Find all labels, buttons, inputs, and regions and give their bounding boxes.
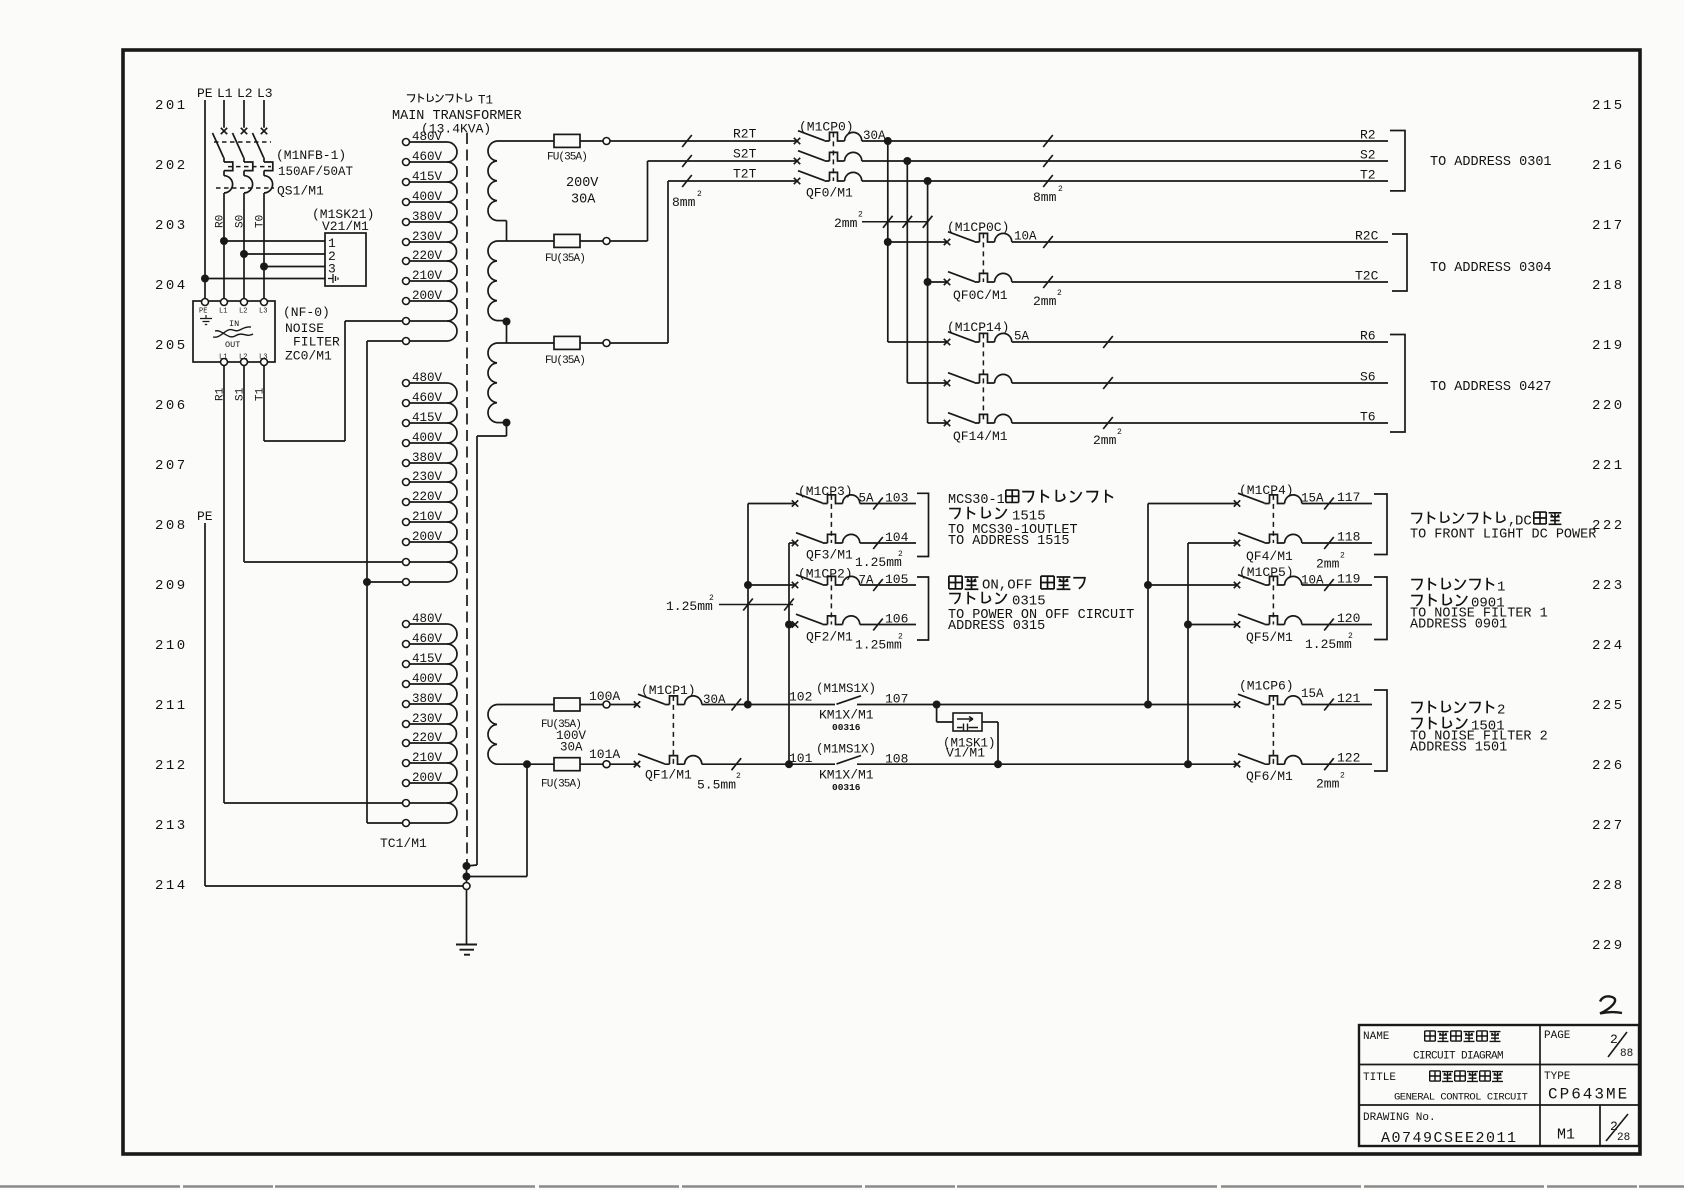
svg-text:224: 224 <box>1592 638 1625 654</box>
wire V21 pin2 <box>240 250 248 258</box>
svg-text:480V: 480V <box>412 371 443 385</box>
svg-text:201: 201 <box>155 98 188 114</box>
svg-text:2mm: 2mm <box>1033 294 1057 309</box>
svg-text:L1: L1 <box>217 86 233 101</box>
svg-text:210: 210 <box>155 638 188 654</box>
ground symbol <box>456 944 477 946</box>
transformer secondary winding 4 (100V) <box>497 704 554 706</box>
wire L2 stub <box>243 100 245 128</box>
svg-text:107: 107 <box>885 692 908 707</box>
svg-text:QF5/M1: QF5/M1 <box>1246 630 1293 645</box>
circuit protector M1CP0 pole S <box>794 151 862 165</box>
svg-text:TO ADDRESS 0427: TO ADDRESS 0427 <box>1430 380 1552 395</box>
svg-text:(M1CP2): (M1CP2) <box>798 567 853 582</box>
breaker link dashes <box>214 141 271 143</box>
svg-text:R1: R1 <box>215 387 227 401</box>
dropper S <box>906 161 908 383</box>
bracket group 0304 <box>1392 234 1407 291</box>
wire 106 <box>860 624 916 626</box>
svg-text:L2: L2 <box>239 354 247 362</box>
bracket 105/106 <box>917 577 929 640</box>
svg-text:2: 2 <box>1117 428 1122 437</box>
M1CP0 link <box>832 132 834 181</box>
breaker QS1/M1 pole L2 <box>233 128 253 193</box>
circuit protector M1CP0 pole T <box>794 171 862 185</box>
wire 121 <box>1302 704 1372 706</box>
svg-text:2: 2 <box>697 190 702 199</box>
svg-text:120: 120 <box>1337 611 1360 626</box>
svg-text:R2T: R2T <box>733 127 757 142</box>
svg-text:(NF-0): (NF-0) <box>283 305 330 320</box>
wire PE drop <box>204 100 206 299</box>
svg-text:FU(35A): FU(35A) <box>545 253 585 265</box>
dropper R <box>887 141 889 342</box>
wire 103 <box>860 503 916 505</box>
wire T2C <box>1012 281 1388 283</box>
transformer T1 primary winding group 2 <box>403 380 410 387</box>
svg-text:S2: S2 <box>1360 148 1376 163</box>
svg-text:230V: 230V <box>412 470 443 484</box>
svg-text:8mm: 8mm <box>672 195 696 210</box>
svg-text:30A: 30A <box>571 193 596 208</box>
svg-text:T2C: T2C <box>1355 269 1379 284</box>
svg-text:2: 2 <box>736 772 741 781</box>
circuit protector M1CP3 pole 103 (QF3/M1) <box>792 493 860 507</box>
svg-text:219: 219 <box>1592 338 1625 354</box>
svg-text:PE: PE <box>197 509 213 524</box>
svg-text:PE: PE <box>197 86 213 101</box>
svg-text:202: 202 <box>155 158 188 174</box>
wire line 102 <box>702 704 835 706</box>
svg-text:NAME: NAME <box>1363 1031 1390 1043</box>
circuit protector M1CP6 pole 121 (QF6/M1) <box>1234 694 1302 708</box>
svg-text:QF1/M1: QF1/M1 <box>645 768 692 783</box>
svg-text:5.5mm: 5.5mm <box>697 778 736 793</box>
circuit protector M1CP3 pole 104 <box>792 533 860 547</box>
ground junction dots <box>463 862 471 870</box>
wire 104 <box>860 542 916 544</box>
svg-text:ADDRESS 1501: ADDRESS 1501 <box>1410 741 1507 756</box>
circuit protector M1CP0C pole R2C (QF0C/M1) <box>944 232 1012 246</box>
svg-text:S0: S0 <box>235 215 247 228</box>
svg-text:226: 226 <box>1592 758 1625 774</box>
svg-text:3: 3 <box>328 262 336 277</box>
svg-text:2mm: 2mm <box>1316 777 1340 792</box>
svg-text:200V: 200V <box>412 289 443 303</box>
circuit protector M1CP4 pole 118 <box>1234 533 1302 547</box>
svg-text:2: 2 <box>1340 552 1345 561</box>
circuit protector M1CP14 pole T6 <box>944 413 1012 427</box>
svg-text:1.25mm: 1.25mm <box>666 599 713 614</box>
wire 119 <box>1302 584 1372 586</box>
bracket 103/104 <box>917 493 929 556</box>
svg-text:QF3/M1: QF3/M1 <box>806 548 853 563</box>
bracket group 0427 <box>1390 335 1405 433</box>
surge absorber M1SK1 V1/M1 <box>933 701 941 709</box>
svg-text:150AF/50AT: 150AF/50AT <box>278 165 354 179</box>
rail feed M1CP3/M1CP2 from line 102 <box>747 504 749 705</box>
svg-text:223: 223 <box>1592 578 1625 594</box>
svg-text:FU(35A): FU(35A) <box>547 152 587 164</box>
svg-text:2: 2 <box>709 594 714 603</box>
svg-text:200V: 200V <box>412 530 443 544</box>
svg-text:ON,OFF: ON,OFF <box>982 578 1032 594</box>
svg-text:2: 2 <box>898 550 903 559</box>
svg-text:(M1CP1): (M1CP1) <box>641 683 696 698</box>
circuit protector M1CP1 pole 2 <box>634 754 702 768</box>
svg-text:209: 209 <box>155 578 188 594</box>
noise filter ZC0/M1 (NF-0) <box>193 301 275 362</box>
svg-text:2: 2 <box>1340 772 1345 781</box>
svg-text:208: 208 <box>155 518 188 534</box>
contactor M1MS1X pole 2 <box>837 756 862 764</box>
ground terminal circle <box>463 883 470 890</box>
rail feed right 2 <box>1187 543 1189 764</box>
wire T1 <box>263 366 265 442</box>
svg-text:(M1CP5): (M1CP5) <box>1239 565 1294 580</box>
svg-text:T0: T0 <box>255 215 267 228</box>
svg-text:T2T: T2T <box>733 167 757 182</box>
svg-text:KM1X/M1: KM1X/M1 <box>819 708 874 723</box>
svg-text:ADDRESS 0901: ADDRESS 0901 <box>1410 618 1507 633</box>
svg-text:R2C: R2C <box>1355 229 1379 244</box>
transformer secondary winding 1 (200V) <box>497 140 554 142</box>
svg-text:221: 221 <box>1592 458 1625 474</box>
svg-text:108: 108 <box>885 752 908 767</box>
svg-text:T1: T1 <box>478 94 493 108</box>
svg-text:V1/M1: V1/M1 <box>946 746 985 761</box>
svg-text:210V: 210V <box>412 269 443 283</box>
svg-text:KM1X/M1: KM1X/M1 <box>819 768 874 783</box>
svg-text:228: 228 <box>1592 878 1625 894</box>
svg-text:2: 2 <box>858 211 863 220</box>
svg-text:203: 203 <box>155 218 188 234</box>
svg-text:FILTER: FILTER <box>293 335 340 350</box>
svg-text:230V: 230V <box>412 712 443 726</box>
breaker QS1/M1 pole L1 <box>213 128 233 193</box>
wire R2 bus <box>862 140 1388 142</box>
svg-text:211: 211 <box>155 698 188 714</box>
wire 105 <box>860 584 916 586</box>
svg-text:S2T: S2T <box>733 147 757 162</box>
svg-text:102: 102 <box>789 690 812 705</box>
wire R0 <box>223 193 225 299</box>
wire T0 <box>263 193 265 299</box>
wire L1 stub <box>223 100 225 128</box>
svg-text:119: 119 <box>1337 572 1360 587</box>
wire T2T riser <box>667 181 669 343</box>
svg-text:R2: R2 <box>1360 128 1376 143</box>
rail feed right 1 <box>1147 504 1149 705</box>
wire S1 <box>243 366 245 563</box>
svg-text:(M1CP14): (M1CP14) <box>947 320 1009 335</box>
fuse FU(35A) 100V bottom <box>554 758 580 771</box>
svg-text:215: 215 <box>1592 98 1625 114</box>
svg-text:101: 101 <box>789 751 813 766</box>
svg-text:TC1/M1: TC1/M1 <box>380 836 427 851</box>
circuit protector M1CP5 pole 119 (QF5/M1) <box>1234 575 1302 589</box>
transformer secondary winding 3 <box>497 342 554 344</box>
svg-text:207: 207 <box>155 458 188 474</box>
circuit protector M1CP2 pole 105 (QF2/M1) <box>792 575 860 589</box>
svg-text:(M1CP4): (M1CP4) <box>1239 483 1294 498</box>
svg-text:206: 206 <box>155 398 188 414</box>
svg-text:380V: 380V <box>412 210 443 224</box>
svg-text:00316: 00316 <box>832 782 861 793</box>
svg-text:220V: 220V <box>412 731 443 745</box>
text front light JP <box>1411 513 1421 523</box>
svg-text:OUT: OUT <box>225 340 240 350</box>
svg-text:2mm: 2mm <box>1093 433 1117 448</box>
wire R6 feed <box>888 341 947 343</box>
surge absorber V21/M1 (M1SK21) <box>325 233 366 286</box>
svg-text:T1: T1 <box>255 387 267 401</box>
svg-text:30A: 30A <box>560 741 583 755</box>
svg-text:106: 106 <box>885 612 908 627</box>
svg-text:415V: 415V <box>412 652 443 666</box>
svg-text:2: 2 <box>1497 703 1505 719</box>
svg-text:V21/M1: V21/M1 <box>322 219 369 234</box>
svg-text:212: 212 <box>155 758 188 774</box>
scan edge line bottom <box>0 1185 1684 1187</box>
svg-text:IN: IN <box>229 319 239 329</box>
svg-text:L3: L3 <box>259 308 267 316</box>
svg-text:216: 216 <box>1592 158 1625 174</box>
svg-text:1: 1 <box>1497 580 1505 596</box>
circuit protector M1CP14 pole R6 (QF14/M1) <box>944 332 1012 346</box>
svg-text:R6: R6 <box>1360 329 1376 344</box>
svg-text:QF0/M1: QF0/M1 <box>806 186 853 201</box>
svg-text:(M1CP0): (M1CP0) <box>799 120 854 135</box>
wire T2 bus <box>862 180 1388 182</box>
svg-text:R0: R0 <box>215 215 227 228</box>
svg-text:460V: 460V <box>412 632 443 646</box>
bracket 117/118 <box>1374 494 1387 555</box>
M1CP3 link <box>830 495 832 543</box>
svg-text:121: 121 <box>1337 691 1361 706</box>
svg-text:220V: 220V <box>412 490 443 504</box>
svg-text:220V: 220V <box>412 249 443 263</box>
svg-text:(M1MS1X): (M1MS1X) <box>816 682 876 696</box>
svg-text:2: 2 <box>898 633 903 642</box>
svg-text:DRAWING No.: DRAWING No. <box>1363 1112 1436 1124</box>
svg-text:217: 217 <box>1592 218 1625 234</box>
svg-text:2: 2 <box>1058 185 1063 194</box>
bracket 121/122 <box>1374 690 1387 771</box>
svg-text:28: 28 <box>1617 1132 1630 1144</box>
svg-text:PE: PE <box>199 308 207 316</box>
svg-text:218: 218 <box>1592 278 1625 294</box>
dropper T <box>927 181 929 423</box>
svg-text:2mm: 2mm <box>1316 557 1340 572</box>
wire V21 pin1 <box>220 237 228 245</box>
circuit protector M1CP14 pole S6 <box>944 373 1012 387</box>
svg-text:QF14/M1: QF14/M1 <box>953 429 1008 444</box>
bracket group 0301 <box>1390 131 1405 191</box>
M1CP4 link <box>1272 495 1274 543</box>
svg-text:200V: 200V <box>412 771 443 785</box>
svg-text:104: 104 <box>885 530 909 545</box>
svg-text:L2: L2 <box>239 308 247 316</box>
svg-text:TO ADDRESS 0304: TO ADDRESS 0304 <box>1430 261 1552 276</box>
transformer T1 primary winding group 3 <box>403 621 410 628</box>
svg-text:400V: 400V <box>412 672 443 686</box>
svg-text:(M1CP6): (M1CP6) <box>1239 679 1294 694</box>
svg-text:210V: 210V <box>412 751 443 765</box>
wire 101-line to ground <box>523 760 531 768</box>
wire S6 <box>1012 382 1388 384</box>
svg-text:15A: 15A <box>1301 687 1324 701</box>
svg-text:MCS30-1: MCS30-1 <box>948 493 1005 508</box>
M1CP5 link <box>1272 576 1274 624</box>
svg-text:400V: 400V <box>412 190 443 204</box>
fuse FU(35A) 100V top <box>554 698 580 711</box>
svg-text:117: 117 <box>1337 490 1360 505</box>
svg-text:(M1NFB-1): (M1NFB-1) <box>276 148 346 163</box>
text power on off JP <box>949 576 962 589</box>
fuse FU(35A) sec2 <box>554 234 580 247</box>
rail feed pole2 from line 101 <box>788 543 790 764</box>
wire 117 <box>1302 503 1372 505</box>
transformer T1 title <box>407 95 415 102</box>
wire R2C <box>1012 241 1388 243</box>
svg-text:QF2/M1: QF2/M1 <box>806 630 853 645</box>
svg-text:TO ADDRESS 1515: TO ADDRESS 1515 <box>948 534 1070 549</box>
svg-text:QF4/M1: QF4/M1 <box>1246 549 1293 564</box>
wire 120 <box>1302 624 1372 626</box>
wire T6 feed <box>928 422 947 424</box>
junction to M1CP2 rail <box>785 760 793 768</box>
svg-text:CP643ME: CP643ME <box>1548 1086 1629 1104</box>
fuse FU(35A) sec3 <box>554 336 580 349</box>
cable slashes 8mm2 at x=687 <box>682 135 692 147</box>
wire V21 pin3 <box>260 263 268 271</box>
svg-text:210V: 210V <box>412 510 443 524</box>
svg-text:L1: L1 <box>219 308 227 316</box>
wire S0 <box>243 193 245 299</box>
svg-text:L2: L2 <box>237 86 253 101</box>
svg-text:213: 213 <box>155 818 188 834</box>
svg-text:222: 222 <box>1592 518 1625 534</box>
svg-text:L1: L1 <box>219 354 227 362</box>
svg-text:TYPE: TYPE <box>1544 1071 1571 1083</box>
svg-text:(M1CP3): (M1CP3) <box>798 484 853 499</box>
text noise filter 1 JP <box>1411 580 1422 590</box>
svg-text:1.25mm: 1.25mm <box>855 638 902 653</box>
svg-text:00316: 00316 <box>832 722 861 733</box>
circuit protector M1CP4 pole 117 (QF4/M1) <box>1234 493 1302 507</box>
transformer T1 primary winding group 1 <box>403 139 410 146</box>
M1CP14 link <box>982 333 984 423</box>
title block <box>1359 1025 1639 1146</box>
svg-text:205: 205 <box>155 338 188 354</box>
svg-text:2mm: 2mm <box>834 216 858 231</box>
svg-text:8mm: 8mm <box>1033 190 1057 205</box>
svg-text:QS1/M1: QS1/M1 <box>277 184 324 199</box>
svg-text:480V: 480V <box>412 612 443 626</box>
svg-text:L3: L3 <box>259 354 267 362</box>
svg-text:QF0C/M1: QF0C/M1 <box>953 288 1008 303</box>
svg-text:380V: 380V <box>412 692 443 706</box>
svg-text:M1: M1 <box>1557 1127 1575 1144</box>
circuit protector M1CP6 pole 122 <box>1234 754 1302 768</box>
wire line 101 <box>702 763 835 765</box>
svg-text:S6: S6 <box>1360 370 1376 385</box>
svg-text:QF6/M1: QF6/M1 <box>1246 769 1293 784</box>
svg-text:200V: 200V <box>566 176 599 191</box>
svg-text:2: 2 <box>1348 632 1353 641</box>
svg-text:88: 88 <box>1620 1048 1633 1060</box>
M1CP6 link <box>1272 696 1274 764</box>
circuit protector M1CP5 pole 120 <box>1234 614 1302 628</box>
circuit protector M1CP2 pole 106 <box>792 614 860 628</box>
svg-text:TITLE: TITLE <box>1363 1072 1396 1084</box>
circuit protector M1CP0C pole T2C <box>944 272 1012 286</box>
svg-text:PAGE: PAGE <box>1544 1030 1571 1042</box>
svg-text:(M1CP0C): (M1CP0C) <box>947 220 1009 235</box>
svg-text:CIRCUIT DIAGRAM: CIRCUIT DIAGRAM <box>1413 1051 1503 1063</box>
transformer secondary winding 2 <box>497 240 554 242</box>
svg-text:ADDRESS 0315: ADDRESS 0315 <box>948 619 1045 634</box>
svg-text:460V: 460V <box>412 150 443 164</box>
svg-text:214: 214 <box>155 878 188 894</box>
svg-text:122: 122 <box>1337 751 1360 766</box>
svg-text:A0749CSEE2011: A0749CSEE2011 <box>1381 1130 1518 1147</box>
junction to M1CP3 rail <box>744 701 752 709</box>
fuse FU(35A) sec1 <box>554 134 580 147</box>
M1CP0C link <box>982 233 984 282</box>
svg-text:380V: 380V <box>412 451 443 465</box>
svg-text:1.25mm: 1.25mm <box>855 555 902 570</box>
svg-text:220: 220 <box>1592 398 1625 414</box>
svg-text:480V: 480V <box>412 130 443 144</box>
bracket 119/120 <box>1374 577 1387 640</box>
svg-text:225: 225 <box>1592 698 1625 714</box>
breaker QS1/M1 pole L3 <box>253 128 273 193</box>
M1CP2 link <box>830 576 832 624</box>
svg-text:101A: 101A <box>589 747 620 762</box>
cable slashes 8mm2 right <box>1043 135 1053 147</box>
svg-text:2: 2 <box>1057 289 1062 298</box>
junction S2 <box>903 157 911 165</box>
svg-text:415V: 415V <box>412 170 443 184</box>
secondary return wire to ground <box>477 435 507 437</box>
wire common taps chain <box>367 340 403 342</box>
svg-text:T2: T2 <box>1360 168 1376 183</box>
svg-text:1.25mm: 1.25mm <box>1305 637 1352 652</box>
wire S2T riser <box>647 161 649 241</box>
svg-text:229: 229 <box>1592 938 1625 954</box>
wire R2C feed <box>884 238 892 246</box>
text noise filter 2 JP <box>1411 703 1422 713</box>
svg-text:TO ADDRESS 0301: TO ADDRESS 0301 <box>1430 155 1552 170</box>
svg-text:415V: 415V <box>412 411 443 425</box>
wire 122 <box>1302 763 1372 765</box>
svg-text:227: 227 <box>1592 818 1625 834</box>
svg-text:ZC0/M1: ZC0/M1 <box>285 349 332 364</box>
junction T2 <box>924 177 932 185</box>
svg-text:118: 118 <box>1337 530 1360 545</box>
wire L3 stub <box>263 100 265 128</box>
junction R2 <box>884 137 892 145</box>
M1CP1 link <box>672 696 674 764</box>
transformer core dashed line <box>466 133 468 866</box>
wire S2 bus <box>862 160 1388 162</box>
svg-text:FU(35A): FU(35A) <box>541 779 581 791</box>
wire T6 <box>1012 422 1388 424</box>
svg-text:204: 204 <box>155 278 188 294</box>
svg-text:(M1MS1X): (M1MS1X) <box>816 743 876 757</box>
